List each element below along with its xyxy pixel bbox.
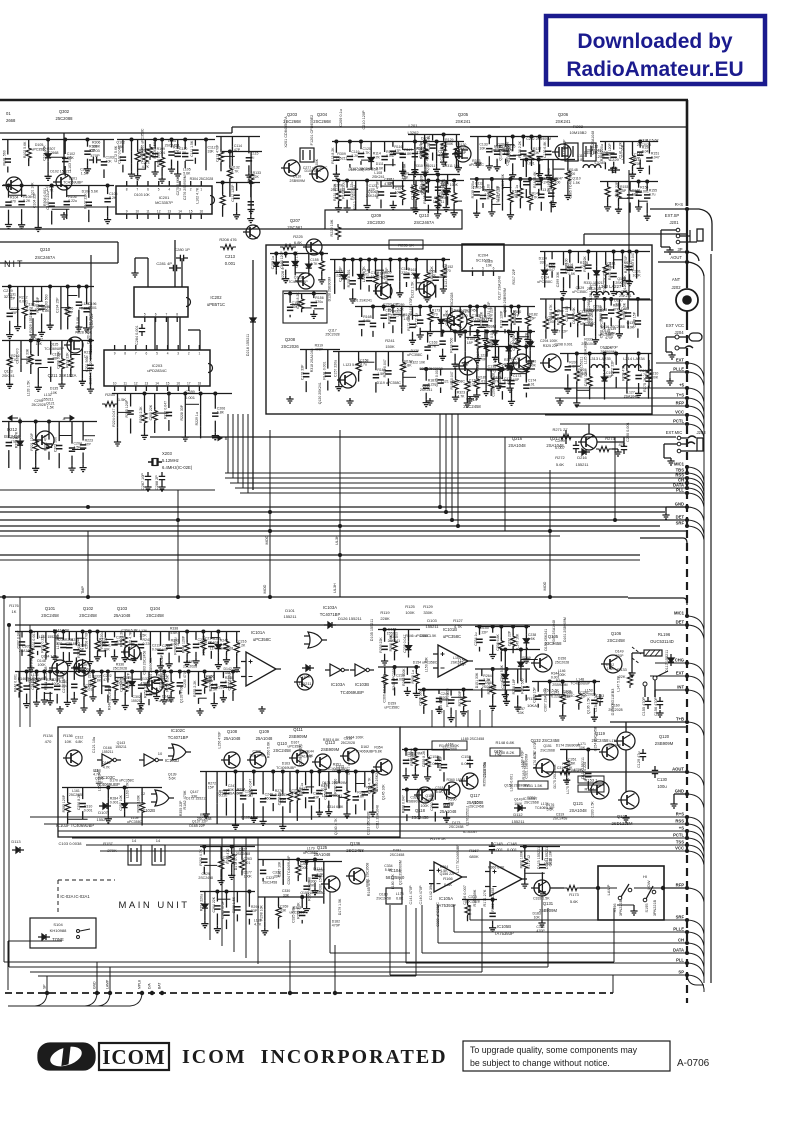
- svg-text:L117 22P: L117 22P: [621, 144, 625, 159]
- node PLLE: [685, 370, 689, 374]
- wire: [414, 135, 416, 150]
- ground: [75, 324, 82, 331]
- svg-text:R229 1u: R229 1u: [195, 412, 199, 425]
- wire: [442, 260, 444, 267]
- wire: [226, 892, 228, 908]
- capacitor R241: [138, 645, 144, 648]
- wire rail: [2, 139, 114, 141]
- node: [645, 180, 649, 184]
- wire bus DET: [0, 519, 687, 521]
- wire: [450, 307, 452, 315]
- svg-text:C194 15P: C194 15P: [55, 297, 59, 313]
- svg-text:4.7u: 4.7u: [360, 362, 367, 366]
- node: [106, 786, 110, 790]
- wire: [168, 632, 170, 641]
- wire: [204, 672, 206, 677]
- ground: [152, 169, 159, 176]
- transistor Q211a: [376, 283, 392, 299]
- wire rail: [480, 346, 535, 348]
- capacitor C203: [56, 446, 62, 449]
- svg-text:R271 33P: R271 33P: [458, 690, 462, 706]
- svg-text:uPC358C: uPC358C: [159, 699, 175, 703]
- svg-text:SRF: SRF: [676, 915, 685, 920]
- svg-text:L110 0.001: L110 0.001: [401, 164, 405, 181]
- svg-text:8.2K: 8.2K: [23, 199, 31, 203]
- wire: [156, 672, 158, 676]
- wire row bottom: [0, 228, 325, 230]
- wire rail: [402, 749, 450, 751]
- node: [203, 670, 207, 674]
- svg-text:C146 18P: C146 18P: [339, 266, 343, 282]
- svg-text:S195: S195: [645, 904, 649, 913]
- svg-text:1: 1: [200, 187, 202, 191]
- wire: [578, 682, 580, 693]
- svg-text:2SB909M: 2SB909M: [289, 734, 308, 739]
- capacitor C253: [326, 793, 332, 796]
- wire: [454, 200, 462, 202]
- wire: [81, 352, 83, 364]
- node: [418, 305, 422, 309]
- node: [35, 670, 39, 674]
- svg-text:2SC2458: 2SC2458: [553, 817, 568, 821]
- svg-text:R322 10K: R322 10K: [410, 361, 426, 365]
- transformer T102: [152, 845, 165, 865]
- capacitor C173: [508, 381, 514, 384]
- svg-text:2SC2458: 2SC2458: [197, 817, 212, 821]
- svg-text:2SC2668: 2SC2668: [524, 800, 539, 804]
- wire: [107, 798, 109, 810]
- wire: [122, 140, 124, 153]
- svg-text:C276 2SB909M: C276 2SB909M: [183, 175, 187, 200]
- node: [561, 680, 565, 684]
- svg-text:25C2028: 25C2028: [587, 287, 601, 291]
- node: [453, 330, 457, 334]
- svg-text:DATA: DATA: [673, 948, 684, 953]
- resistor C171: [489, 375, 494, 391]
- svg-text:C129 47u: C129 47u: [637, 752, 641, 768]
- ground: [460, 709, 467, 716]
- svg-text:C154 120P: C154 120P: [280, 250, 284, 268]
- node: [345, 179, 349, 183]
- diode D104: [302, 665, 314, 671]
- node SRF: [685, 524, 689, 528]
- wire: [425, 369, 427, 381]
- svg-text:2SC2458: 2SC2458: [607, 638, 625, 643]
- svg-text:14: 14: [132, 838, 137, 843]
- wire: [72, 449, 85, 451]
- wire: [512, 137, 514, 152]
- capacitor C265: [223, 912, 229, 915]
- wire: [486, 369, 502, 371]
- svg-text:C326 10K: C326 10K: [548, 850, 552, 866]
- node RSS: [685, 476, 689, 480]
- wire: [399, 260, 401, 270]
- svg-text:8: 8: [176, 313, 178, 317]
- wire: [392, 307, 394, 314]
- svg-text:D114: D114: [313, 866, 323, 871]
- capacitor R287: [441, 765, 447, 768]
- svg-text:C300 uPC358C: C300 uPC358C: [600, 313, 604, 338]
- svg-text:C210 4.7K: C210 4.7K: [129, 631, 133, 648]
- capacitor C210: [131, 642, 137, 645]
- wire: [406, 260, 408, 271]
- node: [621, 250, 625, 254]
- node: [271, 770, 275, 774]
- ground: [6, 332, 13, 339]
- wire: [488, 137, 490, 145]
- wire: [455, 369, 457, 379]
- svg-text:17: 17: [187, 382, 191, 386]
- wire: [21, 186, 23, 198]
- wire: [405, 750, 407, 756]
- wire: [66, 186, 68, 198]
- wire: [253, 772, 255, 786]
- ground: [604, 204, 611, 211]
- node: [130, 138, 134, 142]
- transistor Q204: [312, 166, 328, 182]
- svg-text:R273: R273: [605, 436, 615, 441]
- ground: [6, 381, 13, 388]
- svg-text:R347 2SA1048: R347 2SA1048: [552, 620, 556, 644]
- wire arc: [688, 424, 704, 440]
- crystal X203: [148, 458, 162, 466]
- wire main bus vertical: [686, 209, 688, 288]
- svg-text:D117 155211: D117 155211: [665, 650, 669, 672]
- ground: [220, 695, 227, 702]
- capacitor C298: [621, 442, 627, 454]
- node: [436, 179, 440, 183]
- diode R162: [413, 270, 419, 282]
- svg-text:R197 0.22u: R197 0.22u: [608, 262, 612, 280]
- node: [106, 184, 110, 188]
- wire: [216, 772, 218, 792]
- transistor Q136: [349, 868, 365, 884]
- node: [300, 895, 304, 899]
- node: [53, 630, 57, 634]
- wire: [98, 650, 106, 652]
- node RFP: [685, 404, 689, 408]
- svg-text:25A1048: 25A1048: [114, 613, 131, 618]
- wire: [549, 682, 551, 693]
- resistor C156: [319, 258, 324, 274]
- wire: [66, 672, 68, 682]
- wire: [615, 354, 617, 365]
- capacitor C250: [280, 799, 286, 802]
- svg-text:MOD: MOD: [265, 535, 269, 544]
- wire: [502, 379, 514, 381]
- ground: [455, 165, 462, 172]
- svg-text:TC4069UBP: TC4069UBP: [570, 682, 590, 686]
- resistor R153: [616, 185, 621, 201]
- capacitor C134: [486, 149, 492, 152]
- wire: [339, 796, 347, 798]
- ground: [161, 697, 168, 704]
- ground: [105, 816, 112, 823]
- wire: [149, 632, 151, 646]
- svg-text:R350 5.6K: R350 5.6K: [267, 741, 271, 758]
- svg-text:25A1048: 25A1048: [256, 736, 273, 741]
- wire arc: [688, 831, 704, 847]
- svg-text:100K: 100K: [95, 781, 104, 785]
- svg-text:155211: 155211: [311, 873, 325, 878]
- ground: [41, 697, 48, 704]
- wire: [593, 682, 595, 696]
- wire: [37, 632, 39, 639]
- wire: [334, 260, 336, 272]
- wire: [505, 137, 507, 147]
- node: [511, 625, 515, 629]
- svg-text:C230 470P: C230 470P: [183, 669, 187, 687]
- wire: [294, 254, 296, 258]
- wire: [485, 347, 487, 367]
- resistor C162: [468, 314, 473, 330]
- capacitor C179: [567, 267, 573, 270]
- wire: [519, 179, 521, 187]
- wire bus lower: [44, 823, 687, 825]
- svg-text:uPB5T1C: uPB5T1C: [207, 302, 225, 307]
- capacitor C217: [23, 686, 29, 689]
- wire: [226, 632, 228, 641]
- svg-text:1.5K: 1.5K: [47, 406, 55, 410]
- svg-text:C169 0.001: C169 0.001: [435, 368, 439, 386]
- ground: [84, 166, 91, 173]
- svg-text:R237 120P: R237 120P: [77, 640, 81, 658]
- wire: [504, 650, 506, 671]
- wire: [412, 307, 414, 320]
- wire: [467, 396, 479, 398]
- capacitor R109: [152, 154, 158, 157]
- capacitor R225: [127, 411, 133, 414]
- resistor R286: [413, 753, 418, 769]
- ground: [411, 167, 418, 174]
- IC IC203: [104, 350, 210, 386]
- transistor Q216m: [581, 434, 597, 450]
- ground: [112, 697, 119, 704]
- capacitor C239: [503, 682, 509, 685]
- wire rail top-left: [0, 132, 232, 134]
- capacitor C196: [83, 309, 89, 312]
- svg-text:470P: 470P: [315, 348, 324, 352]
- svg-text:470P: 470P: [65, 311, 74, 315]
- ground: [427, 329, 434, 336]
- wire arc: [688, 493, 704, 509]
- svg-text:R129: R129: [423, 604, 433, 609]
- svg-text:R318 2SA1048: R318 2SA1048: [310, 348, 314, 372]
- transistor Q107: [66, 750, 82, 766]
- resistor C113: [218, 149, 223, 165]
- capacitor C288: [159, 472, 165, 484]
- transistor Q108: [224, 752, 240, 768]
- wire: [137, 140, 139, 151]
- node: [221, 181, 225, 185]
- svg-text:L144 2SC2668: L144 2SC2668: [210, 647, 233, 651]
- wire: [89, 638, 91, 650]
- svg-text:D103 10K: D103 10K: [134, 193, 150, 197]
- svg-text:EXT: EXT: [676, 671, 685, 676]
- svg-text:33K: 33K: [422, 141, 429, 145]
- ground: [245, 172, 252, 179]
- svg-text:470P: 470P: [633, 162, 642, 166]
- wire: [154, 140, 156, 150]
- wire: [438, 690, 440, 695]
- svg-text:D114 2SC2458: D114 2SC2458: [547, 168, 551, 192]
- svg-text:2SK241: 2SK241: [556, 119, 572, 124]
- wire: [383, 307, 385, 311]
- capacitor C198: [35, 360, 41, 363]
- svg-text:R275 0.047: R275 0.047: [248, 779, 252, 797]
- node: [281, 770, 285, 774]
- wire: [272, 772, 274, 792]
- svg-text:R324 155211: R324 155211: [580, 357, 584, 378]
- ground: [122, 703, 129, 710]
- svg-text:D117 22P: D117 22P: [552, 329, 568, 333]
- capacitor R111: [168, 152, 174, 155]
- wire: [188, 677, 190, 689]
- wire: [402, 181, 404, 189]
- wire: [49, 299, 51, 311]
- node: [296, 858, 300, 862]
- wire: [434, 790, 436, 800]
- svg-text:J204: J204: [674, 330, 684, 335]
- svg-text:15: 15: [189, 210, 193, 214]
- capacitor R116: [390, 151, 396, 154]
- svg-text:2SA1048: 2SA1048: [249, 754, 263, 758]
- wire: [250, 152, 252, 174]
- svg-text:2SC2668: 2SC2668: [540, 748, 555, 752]
- wire arc: [688, 478, 704, 494]
- svg-text:15P: 15P: [529, 317, 536, 321]
- wire: [185, 403, 199, 405]
- svg-text:Q210: Q210: [40, 247, 51, 252]
- svg-text:C190 33K: C190 33K: [584, 370, 588, 386]
- node: [426, 179, 430, 183]
- node DET: [685, 518, 689, 522]
- wire: [282, 866, 284, 878]
- ground: [417, 332, 424, 339]
- svg-text:470P: 470P: [458, 663, 467, 667]
- wire: [318, 772, 320, 787]
- wire: [114, 632, 116, 638]
- wire: [566, 750, 568, 760]
- wire: [161, 140, 163, 157]
- ground: [104, 217, 111, 224]
- transistor Q117: [462, 773, 478, 789]
- svg-text:2SK241: 2SK241: [366, 194, 379, 198]
- capacitor R267: [523, 687, 529, 690]
- svg-text:0.047: 0.047: [651, 156, 660, 160]
- svg-text:Q155 uPC358C: Q155 uPC358C: [300, 891, 325, 895]
- node: [539, 177, 543, 181]
- svg-text:TC4069UBP: TC4069UBP: [44, 347, 64, 351]
- transistor Q217: [543, 354, 561, 372]
- wire: [205, 680, 213, 682]
- capacitor C120: [358, 154, 364, 157]
- diode C166: [506, 343, 512, 355]
- svg-text:EXT.SP: EXT.SP: [665, 213, 680, 218]
- svg-text:C176 10K: C176 10K: [493, 356, 497, 372]
- wire drop: [177, 490, 179, 597]
- node: [484, 345, 488, 349]
- svg-text:5.6K: 5.6K: [170, 631, 178, 635]
- wire: [223, 686, 231, 688]
- wire arc: [688, 467, 704, 483]
- wire: [596, 252, 598, 267]
- wire bus lower: [100, 850, 687, 852]
- svg-text:TC4069UBP: TC4069UBP: [288, 280, 308, 284]
- wire: [144, 140, 146, 152]
- svg-text:uPC358C: uPC358C: [572, 290, 588, 294]
- resistor C185: [552, 307, 557, 323]
- svg-text:CH: CH: [678, 938, 684, 943]
- node PLL: [685, 961, 689, 965]
- resistor R254: [169, 679, 174, 695]
- ground sw: [630, 908, 637, 915]
- svg-text:11: 11: [124, 382, 128, 386]
- capacitor R105: [18, 202, 24, 205]
- wire: [384, 667, 386, 674]
- wire: [527, 307, 529, 315]
- wire: [262, 772, 264, 795]
- ground: [18, 222, 25, 229]
- node: [475, 177, 479, 181]
- svg-text:C304 6.8K: C304 6.8K: [121, 628, 138, 632]
- ground: [343, 811, 350, 818]
- capacitor C102: [62, 158, 68, 161]
- capacitor C132: [444, 189, 450, 192]
- node: [462, 688, 466, 692]
- ground: [80, 465, 87, 472]
- svg-text:IC103B: IC103B: [355, 682, 369, 687]
- wire: [231, 146, 233, 158]
- wire: [107, 672, 109, 683]
- svg-text:C281 4P: C281 4P: [156, 261, 172, 266]
- svg-text:FI202: FI202: [573, 124, 584, 129]
- ground: [86, 659, 93, 666]
- wire: [537, 682, 539, 692]
- svg-text:0.001: 0.001: [84, 809, 93, 813]
- svg-text:2SC2458: 2SC2458: [390, 853, 405, 857]
- capacitor R275: [251, 790, 257, 793]
- wire: [117, 416, 119, 428]
- wire: [83, 672, 85, 686]
- wire INT: [655, 689, 687, 691]
- capacitor C107: [120, 157, 126, 160]
- resistor C205: [152, 407, 157, 423]
- wire staircase right: [469, 905, 471, 920]
- wire: [24, 287, 26, 305]
- svg-text:R262 100K: R262 100K: [402, 668, 406, 686]
- wire: [370, 142, 372, 154]
- svg-text:1.5K: 1.5K: [210, 687, 218, 691]
- wire: [622, 252, 624, 264]
- wire: [424, 175, 426, 182]
- wire: [205, 148, 207, 160]
- wire: [423, 690, 425, 695]
- svg-text:D165 22P: D165 22P: [189, 824, 205, 828]
- wire: [296, 772, 298, 790]
- svg-text:6.8K: 6.8K: [375, 750, 383, 754]
- svg-text:R167: R167: [469, 848, 479, 853]
- node: [441, 258, 445, 262]
- capacitor R259: [381, 646, 387, 649]
- resistor C181: [603, 262, 608, 278]
- capacitor R245: [208, 643, 214, 646]
- svg-text:C285 TC4069UBP: C285 TC4069UBP: [568, 169, 572, 199]
- svg-text:R302 100K: R302 100K: [519, 850, 523, 868]
- svg-text:2SC2467A: 2SC2467A: [35, 255, 55, 260]
- transistor Q216: [513, 354, 531, 372]
- resistor R199: [560, 312, 565, 328]
